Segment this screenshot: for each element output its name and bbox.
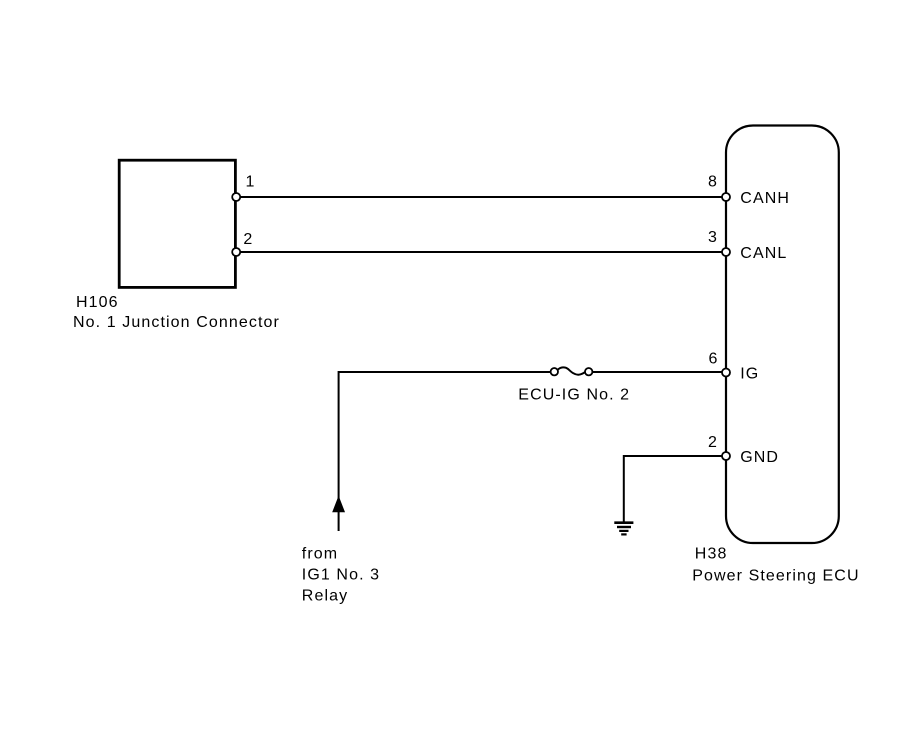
svg-text:3: 3 bbox=[708, 229, 718, 246]
arrow from IG1 No.3 Relay bbox=[333, 497, 344, 512]
svg-text:2: 2 bbox=[243, 231, 253, 248]
pin 6 circle (ECU) bbox=[722, 369, 730, 377]
svg-text:Power Steering ECU: Power Steering ECU bbox=[692, 568, 859, 585]
wire IG horizontal left segment bbox=[339, 371, 551, 373]
wire pin2 to CANL bbox=[236, 251, 726, 253]
wire pin1 to CANH bbox=[236, 196, 726, 198]
fuse ECU-IG No.2 bbox=[551, 367, 593, 375]
svg-text:IG: IG bbox=[740, 366, 759, 383]
svg-text:1: 1 bbox=[246, 174, 256, 191]
wire GND vertical bbox=[623, 455, 625, 522]
pin 2 circle (ECU) bbox=[722, 452, 730, 460]
pin 2 circle (junction) bbox=[232, 248, 240, 256]
svg-text:Relay: Relay bbox=[302, 588, 348, 605]
svg-text:IG1 No. 3: IG1 No. 3 bbox=[302, 567, 380, 584]
ECU connector H38 body bbox=[726, 126, 839, 544]
wire GND horizontal bbox=[624, 455, 726, 457]
svg-text:CANL: CANL bbox=[740, 245, 787, 262]
pin 3 circle (ECU) bbox=[722, 248, 730, 256]
wire IG vertical drop bbox=[338, 371, 340, 531]
svg-text:8: 8 bbox=[708, 174, 718, 191]
pin 1 circle (junction) bbox=[232, 193, 240, 201]
svg-text:H106: H106 bbox=[76, 294, 119, 311]
svg-text:GND: GND bbox=[740, 449, 779, 466]
svg-text:6: 6 bbox=[709, 351, 719, 368]
svg-text:H38: H38 bbox=[695, 546, 728, 563]
junction connector H106 box bbox=[119, 160, 235, 287]
ground symbol bbox=[614, 523, 633, 535]
svg-text:CANH: CANH bbox=[740, 190, 790, 207]
svg-text:2: 2 bbox=[708, 434, 718, 451]
svg-text:ECU-IG No. 2: ECU-IG No. 2 bbox=[518, 387, 630, 404]
wire IG horizontal right segment bbox=[592, 371, 726, 373]
svg-text:No. 1 Junction Connector: No. 1 Junction Connector bbox=[73, 314, 280, 331]
pin 8 circle (ECU) bbox=[722, 193, 730, 201]
svg-text:from: from bbox=[302, 546, 338, 563]
